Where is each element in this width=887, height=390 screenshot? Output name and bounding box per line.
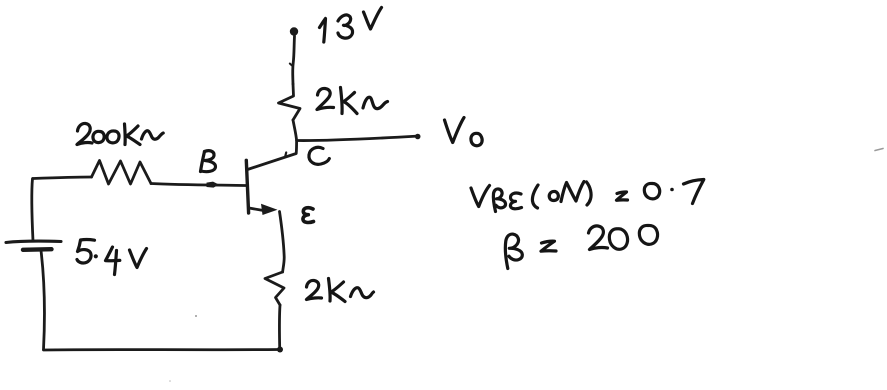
label 2k (R3) <box>307 279 374 302</box>
node Vo terminal dot <box>415 134 421 140</box>
wire left upper vertical <box>32 179 33 242</box>
stray faint dot low <box>169 380 171 382</box>
battery V1 short plate <box>23 247 52 252</box>
base current arrow <box>207 182 220 188</box>
label 2k (R1) <box>317 88 388 114</box>
wire VCC dot down to R1 <box>293 36 295 84</box>
battery V1 long plate <box>6 241 61 242</box>
junction bottom-right <box>277 347 283 353</box>
wire left corner to R2 <box>33 177 92 179</box>
label B <box>201 151 216 172</box>
label C <box>309 147 329 164</box>
resistor R3 2k (emitter, vertical squiggle) <box>265 272 284 305</box>
annotation beta=200 <box>505 225 657 268</box>
transistor Q1 base bar <box>246 160 248 213</box>
transistor Q1 emitter lead <box>249 208 262 210</box>
label 13V <box>320 8 382 43</box>
wire R1 to collector node <box>293 120 297 141</box>
wire R2 to base <box>151 184 247 186</box>
wire emitter down to R3 <box>280 212 285 273</box>
emitter arrowhead <box>261 204 278 215</box>
stray faint dot <box>195 315 197 317</box>
resistor R2 200k (zigzag) <box>92 161 152 185</box>
label 5.4V <box>77 240 147 275</box>
resistor R1 2k (collector, vertical squiggle) <box>279 84 301 120</box>
label Vo <box>445 118 483 146</box>
wire bottom rail <box>44 348 280 351</box>
label E (epsilon) <box>303 208 314 223</box>
wire R3 to bottom rail <box>278 305 281 349</box>
wire Vo output <box>297 136 416 140</box>
annotation VBE(ON)=0.7 <box>471 180 704 212</box>
node 13V supply dot <box>290 27 298 35</box>
label 200k (R2) <box>77 123 163 144</box>
wire left lower vertical <box>41 251 45 350</box>
transistor Q1 collector lead <box>248 141 297 170</box>
stray faint dash right edge <box>875 149 883 151</box>
wire tick <box>290 64 293 67</box>
